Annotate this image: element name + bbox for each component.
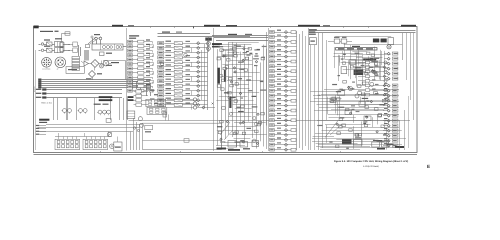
diode CR73 <box>387 67 390 70</box>
resistor R15 <box>138 62 144 65</box>
connector J6 pin 6 <box>392 77 398 80</box>
signal label <box>166 102 172 103</box>
far right vertical 2 <box>406 33 408 80</box>
gate U69 <box>358 133 361 136</box>
gate U50 <box>378 114 382 117</box>
wire horizontal <box>222 64 252 66</box>
relay K15 <box>174 65 182 68</box>
bus riser column B 3 <box>201 50 203 100</box>
diode CR103 <box>383 75 385 77</box>
wire horizontal <box>313 95 399 97</box>
connector P3 pin 8 <box>128 71 133 74</box>
connector J5 pin 15 <box>270 99 275 102</box>
signal label <box>166 41 172 42</box>
gate U6 <box>255 130 258 133</box>
diode CR26 <box>197 70 200 73</box>
wire row <box>274 61 296 63</box>
polarity mark <box>212 103 214 105</box>
diode CR48 <box>242 141 244 143</box>
pin label <box>384 123 388 124</box>
dark box DS2 <box>381 39 387 43</box>
connector J6 pin 3 <box>392 62 398 65</box>
stacked terminal pair E11 <box>60 47 64 51</box>
top border tick 4 <box>343 27 345 29</box>
svg-text:5-19/(5-20 blank): 5-19/(5-20 blank) <box>363 165 379 168</box>
resistor R14 <box>138 58 144 61</box>
wire vertical <box>365 59 367 73</box>
relay socket bank XA outline <box>55 139 80 149</box>
diode CR100 <box>376 131 378 133</box>
transistor Q31 <box>370 82 374 86</box>
diode CR88 <box>387 124 390 127</box>
wire <box>95 137 97 140</box>
wire row <box>164 57 207 59</box>
diode CR30 <box>197 89 200 92</box>
wire horizontal <box>329 117 356 119</box>
connector J6 pin 5 <box>392 72 398 75</box>
feeder vertical 2 <box>322 33 324 148</box>
gate U46 <box>362 82 366 85</box>
wire <box>384 53 387 55</box>
wire collector risers <box>58 133 60 137</box>
terminal block E20 <box>184 139 189 143</box>
wire row <box>274 120 296 122</box>
driver ladder row 6 <box>358 85 388 87</box>
wire vertical <box>326 125 328 143</box>
bus riser 4 <box>305 36 307 146</box>
contact XB10 <box>103 145 106 148</box>
wire row <box>274 125 296 127</box>
resistor R40 <box>291 31 296 34</box>
wire vertical <box>228 42 230 134</box>
signal label <box>166 60 172 61</box>
pin label <box>394 63 398 64</box>
row label <box>277 118 281 119</box>
transistor Q1 <box>63 109 67 113</box>
connector P3 pin 7 <box>128 67 133 70</box>
diode CR66 <box>285 60 288 63</box>
switch box S1 <box>114 142 122 151</box>
TB1 terminal 5 <box>119 46 122 49</box>
wire horizontal <box>216 145 245 147</box>
resistor R58 <box>291 119 296 122</box>
wire horizontal <box>221 76 252 78</box>
gate U43 <box>374 108 378 111</box>
wire row <box>274 76 296 78</box>
wire vertical <box>368 56 370 88</box>
wire row <box>164 62 207 64</box>
gate U76 <box>370 58 373 60</box>
gate U44 <box>358 92 362 95</box>
wire <box>109 63 111 65</box>
row label <box>277 113 281 114</box>
wire bus horizontal <box>42 81 151 83</box>
lamp row 3 <box>167 107 193 109</box>
diode CR20 <box>197 42 200 45</box>
component label <box>217 126 222 127</box>
component label <box>260 81 263 82</box>
connector P3 pin 3 <box>128 49 133 52</box>
wire horizontal <box>310 101 399 103</box>
wire stub <box>152 86 154 88</box>
wire row1 to E12 <box>68 44 73 46</box>
wire drop 3 <box>136 122 138 150</box>
pin label <box>384 118 388 119</box>
connector J4 pin 10 <box>158 84 164 87</box>
component label <box>238 62 244 63</box>
diode CR51 <box>226 120 228 122</box>
connector J4 pin 7 <box>158 70 164 73</box>
cluster bottom box 3 <box>252 141 259 147</box>
label TB3 block <box>39 119 49 121</box>
wire stub <box>152 60 154 62</box>
connector J5 pin 18 <box>270 114 275 117</box>
component label <box>375 61 378 62</box>
gate U5 <box>242 132 245 135</box>
capacitor C2 <box>99 37 102 40</box>
resistor R21 <box>138 89 144 92</box>
ladder label <box>372 70 376 71</box>
wire inside enclosure <box>143 140 222 142</box>
resistor R56 <box>291 109 296 112</box>
row label <box>277 128 281 129</box>
wire bus risers mid <box>132 80 134 90</box>
pin label <box>384 98 388 99</box>
transistor Q44 <box>384 79 387 82</box>
gate U81 <box>371 54 374 56</box>
gate U68 <box>378 115 381 118</box>
wire horizontal riser top <box>62 33 71 35</box>
wire row <box>274 144 296 146</box>
diode CR91 <box>387 139 390 142</box>
signal label 2 <box>186 41 191 42</box>
component label <box>365 116 368 117</box>
zone label box top-left <box>34 26 39 29</box>
box U31 <box>341 67 347 74</box>
unit boundary A2/A3 <box>213 28 215 151</box>
bus terminal lug <box>38 85 41 87</box>
transistor Q46 <box>384 89 387 92</box>
resistor R16 <box>138 67 144 70</box>
component label <box>224 92 229 93</box>
signal label 2 <box>186 93 191 94</box>
gate U29 <box>229 77 232 80</box>
connector J2 inner ring <box>57 59 64 66</box>
connector J7 pin 12 <box>392 139 398 142</box>
terminal strip TB2 row 3 <box>36 97 42 98</box>
junction vertical <box>191 48 193 53</box>
row label <box>277 44 281 45</box>
wire row <box>274 115 296 117</box>
connector J7 pin 1 <box>392 84 398 87</box>
gate U16 <box>241 105 244 108</box>
bottom dark label right 2 <box>377 148 385 150</box>
bus terminal lug <box>38 87 41 89</box>
component label <box>261 57 265 58</box>
component label <box>352 109 355 110</box>
gate U42 <box>342 124 346 127</box>
wire <box>44 50 47 52</box>
gate U45 <box>330 100 334 103</box>
wire row <box>274 139 296 141</box>
gate U25 <box>217 57 220 60</box>
connector edge bar 2 <box>224 70 226 82</box>
wire row <box>134 95 149 97</box>
contact set K2B <box>156 108 160 110</box>
wire <box>47 97 123 99</box>
gate U8 <box>234 132 237 135</box>
wire diagonal 2 <box>90 37 101 45</box>
wire <box>383 125 387 127</box>
diode CR46 <box>242 59 244 61</box>
contact set K2A <box>154 100 158 102</box>
wire row <box>274 32 296 34</box>
label above bus bar <box>352 46 360 47</box>
connector J4 pin 13 <box>158 99 164 102</box>
wire vertical <box>244 44 246 143</box>
wire horizontal <box>217 56 235 58</box>
connector J5 pin 14 <box>270 94 275 97</box>
wire horizontal <box>356 57 382 59</box>
pin label <box>394 73 398 74</box>
wire <box>383 115 387 117</box>
wire vertical <box>232 42 234 137</box>
wire vertical <box>335 95 337 113</box>
connector J5 pin 8 <box>270 65 275 68</box>
gate U24 <box>233 47 236 50</box>
wire drop 4 <box>139 125 141 151</box>
row label <box>277 84 281 85</box>
contact set K3B <box>162 108 166 110</box>
connector P3 pin 10 <box>128 80 133 83</box>
wire <box>76 137 78 140</box>
transistor Q32 <box>355 94 359 98</box>
wire horizontal <box>228 52 240 54</box>
label resistor values <box>94 104 101 105</box>
diagonal wire 2 <box>330 124 342 135</box>
wire <box>384 68 387 70</box>
connector J7 pin 3 <box>392 94 398 97</box>
connector P3 header label 2 <box>129 38 136 39</box>
wire left feed <box>81 61 84 64</box>
signal label <box>166 98 172 99</box>
wire row <box>133 59 153 61</box>
dark bottom box 1 <box>342 139 352 144</box>
wire row <box>274 71 296 73</box>
title strip label A1 POWER SUPPLY <box>112 25 123 27</box>
component label <box>249 53 252 54</box>
gate U60 <box>381 125 384 128</box>
connector J4 pin 12 <box>158 94 164 97</box>
diode CR79 <box>285 124 288 127</box>
diode CR90 <box>371 70 374 73</box>
signal label 2 <box>186 69 191 70</box>
wire bottom mesh 1 <box>312 141 390 143</box>
gate U2 <box>223 67 226 70</box>
resistor R48 <box>291 70 296 73</box>
wire row <box>274 46 296 48</box>
gate U79 <box>342 62 345 64</box>
wire stub <box>152 46 154 48</box>
resistor R64 <box>291 148 296 151</box>
pin label <box>146 39 150 40</box>
wire vertical <box>236 43 238 148</box>
svg-text:TB2 1 2 3 4: TB2 1 2 3 4 <box>41 101 52 104</box>
connector J5 pin 6 <box>270 55 275 58</box>
component label <box>220 141 225 142</box>
gate U18 <box>258 122 261 125</box>
wire diagonal to C1 <box>88 37 96 44</box>
title strip label A2A2 <box>226 25 237 27</box>
terminal strip E1-E5 <box>72 57 80 59</box>
wire long horizontal y120 <box>129 120 411 122</box>
component label <box>346 148 349 149</box>
wire row <box>134 104 149 106</box>
transistor Q11 <box>184 53 188 57</box>
resistor R54 <box>291 99 296 102</box>
resistor R13 <box>138 54 144 57</box>
signal label 2 <box>186 103 191 104</box>
wire row <box>274 41 296 43</box>
transistor Q10 <box>160 62 164 66</box>
wire TB1 to right <box>123 46 127 48</box>
wire horizontal <box>336 139 374 141</box>
ladder label <box>375 75 379 76</box>
wire row <box>164 100 207 102</box>
diode CR90 <box>387 134 390 137</box>
bus terminal lug <box>38 83 41 85</box>
filter FL1 <box>47 42 53 46</box>
capacitor C1 <box>95 37 98 40</box>
connector J5 pin 11 <box>270 80 275 83</box>
wire vertical <box>327 97 329 115</box>
wire horizontal <box>226 126 257 128</box>
cluster dark label bottom 2 <box>228 149 240 151</box>
pin label <box>394 58 398 59</box>
wire vertical <box>221 57 223 148</box>
wire vertical <box>377 114 379 124</box>
connector J7 pin 2 <box>392 89 398 92</box>
component label <box>218 46 223 47</box>
wire stub <box>152 51 154 53</box>
wire <box>383 145 387 147</box>
wire row <box>133 41 153 43</box>
wire drop <box>94 68 96 71</box>
wire horizontal <box>230 60 251 62</box>
diode CR84 <box>387 104 390 107</box>
wire row <box>164 66 207 68</box>
wire vertical <box>364 92 366 106</box>
component label <box>236 46 241 47</box>
component label <box>222 56 227 57</box>
transistor Q42 <box>384 70 387 73</box>
resistor R1 <box>86 45 90 48</box>
bus riser 3 <box>302 31 304 150</box>
wire <box>383 110 387 112</box>
ladder label <box>372 79 376 80</box>
gate U66 <box>337 98 340 101</box>
connector J5 pin 7 <box>270 60 275 63</box>
resistor R18 <box>138 76 144 79</box>
gate U26 <box>222 79 225 82</box>
diode CR67 <box>285 65 288 68</box>
row label <box>277 69 281 70</box>
box U34 <box>330 98 336 103</box>
resistor R63 <box>366 75 370 78</box>
resistor R52 <box>291 90 296 93</box>
relay K23 <box>174 103 182 106</box>
wire vertical <box>339 96 341 119</box>
wire bends <box>78 45 80 56</box>
resistor R67 <box>366 93 370 96</box>
lamp row 2 <box>167 103 193 105</box>
wire vertical <box>360 97 362 104</box>
wire <box>383 90 387 92</box>
wire horizontal <box>235 108 252 110</box>
connector J4 pin 14 <box>158 103 164 106</box>
wire <box>383 95 387 97</box>
terminal strip TB2 row 1 <box>36 89 42 90</box>
lamp DS21 <box>193 102 196 105</box>
connector edge bar 1 <box>217 68 220 84</box>
diode CR72 <box>387 62 390 65</box>
component label <box>246 79 251 80</box>
relay row box 1 <box>334 39 340 43</box>
wire <box>67 137 69 140</box>
contact XA8 <box>66 145 69 148</box>
wire vertical <box>248 57 250 122</box>
far right vertical 3 <box>410 33 412 100</box>
diode CR22 <box>197 51 200 54</box>
connector J7 pin 9 <box>392 124 398 127</box>
diode CR96 <box>348 86 350 88</box>
resistor R61 <box>366 66 370 69</box>
wire bus horizontal <box>42 79 151 81</box>
wire horizontal <box>227 80 263 82</box>
gate U40 <box>339 118 343 121</box>
unit boundary A1/A2 <box>126 28 128 151</box>
resistor R25 <box>136 103 142 106</box>
component label <box>361 65 365 66</box>
diode CR107 <box>383 94 385 96</box>
wire S1 riser <box>117 137 119 143</box>
row label <box>277 54 281 55</box>
gate U27 <box>218 131 221 134</box>
relay K11 <box>174 46 182 49</box>
wire row <box>133 81 153 83</box>
connector J5 pin 21 <box>270 129 275 132</box>
junction terminal 2 <box>137 129 139 131</box>
wire <box>63 137 65 140</box>
diode CR85 <box>387 109 390 112</box>
wire lower-left bus 3 <box>46 124 142 126</box>
connector P3 pin 2 <box>128 45 133 48</box>
wire vertical <box>353 115 355 123</box>
transistor Q9 <box>138 117 142 121</box>
wire row <box>164 90 207 92</box>
connector J5 pin 10 <box>270 75 275 78</box>
wire <box>63 44 70 46</box>
connector J4 pin 8 <box>158 75 164 78</box>
bus bar strip <box>336 48 377 50</box>
top bus line 2 <box>309 32 416 34</box>
resistor R42 <box>291 41 296 44</box>
connector P3 pin 1 <box>128 40 133 43</box>
diode CR41 <box>239 92 241 94</box>
wire horizontal <box>322 130 402 132</box>
wire vertical <box>339 57 341 65</box>
diode CR76 <box>285 109 288 112</box>
